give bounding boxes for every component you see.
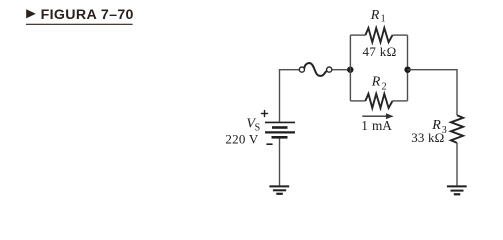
resistor R3 zigzag (vertical) (451, 115, 463, 143)
wire: right node to R3 top (408, 70, 458, 116)
node: right junction of parallel branch (404, 67, 410, 73)
svg-text:R: R (371, 74, 381, 89)
wire: left vertical from battery up and top horizontal to fuse (280, 70, 300, 122)
figure caption arrow (26, 9, 36, 18)
svg-text:220 V: 220 V (225, 132, 259, 147)
wire: battery bottom to left ground (279, 138, 281, 185)
fuse F1 element (S-curve) (304, 63, 326, 76)
wire: R3 bottom to right ground (456, 143, 458, 186)
wire: parallel box right vertical (407, 35, 409, 101)
wire: top branch left segment (350, 34, 365, 36)
wire: parallel box left vertical (349, 35, 351, 101)
wire: bottom branch left segment (350, 100, 365, 102)
svg-text:47 kΩ: 47 kΩ (363, 44, 397, 59)
figure caption underline (26, 23, 133, 25)
wire: top branch right segment (393, 34, 408, 36)
resistor R1 zigzag (365, 28, 392, 42)
resistor R2 zigzag (365, 94, 392, 108)
battery VS plates (265, 122, 295, 137)
svg-text:2: 2 (382, 81, 387, 92)
svg-text:R: R (370, 8, 380, 23)
svg-text:FIGURA 7–70: FIGURA 7–70 (41, 7, 134, 23)
wire: fuse to left node (332, 69, 350, 71)
ground symbol left (269, 186, 289, 193)
battery minus sign (266, 143, 272, 145)
svg-text:33 kΩ: 33 kΩ (411, 130, 444, 145)
node: left junction of parallel branch (347, 67, 353, 73)
fuse F1 left terminal circle (299, 67, 304, 72)
svg-text:1 mA: 1 mA (361, 118, 392, 133)
current arrow 1 mA (362, 113, 393, 119)
battery plus sign (261, 110, 268, 117)
wire: bottom branch right segment (393, 100, 408, 102)
svg-text:1: 1 (381, 13, 386, 24)
fuse F1 right terminal circle (327, 67, 332, 72)
ground symbol right (447, 186, 467, 194)
